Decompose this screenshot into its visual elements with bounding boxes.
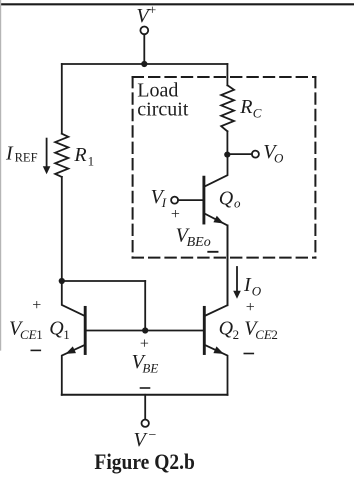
label Q1: [49, 318, 70, 343]
current arrow IO: [233, 267, 241, 299]
svg-text:REF: REF: [15, 150, 38, 164]
resistor R1: [55, 134, 68, 177]
svg-text:I: I: [243, 274, 252, 296]
polarity -: [208, 251, 217, 253]
label Load circuit: [137, 80, 189, 121]
terminal VO: [252, 151, 259, 158]
terminal VI: [171, 197, 178, 204]
junction: [141, 61, 147, 67]
svg-text:I: I: [161, 195, 167, 210]
label VI: [151, 186, 167, 210]
junction: [59, 278, 65, 284]
node V+: [136, 4, 156, 27]
svg-text:−: −: [149, 428, 157, 443]
label VBEo: [176, 225, 211, 250]
wire: [61, 177, 63, 281]
polarity -: [244, 353, 253, 355]
label Qo: [219, 188, 241, 211]
junction: [224, 152, 230, 158]
svg-text:BE: BE: [142, 361, 158, 376]
transistor Q2: [204, 225, 227, 394]
label VCE1: [9, 318, 43, 343]
svg-text:C: C: [253, 105, 262, 120]
wire: [61, 64, 63, 134]
wire: [62, 394, 228, 396]
junction: [142, 327, 148, 333]
resistor RC: [221, 64, 234, 155]
label RC: [239, 96, 261, 121]
svg-text:BEo: BEo: [187, 235, 211, 250]
label Q2: [219, 318, 240, 343]
wire: [143, 34, 145, 64]
svg-text:Q: Q: [49, 318, 64, 340]
svg-text:R: R: [73, 144, 86, 166]
load circuit box: [133, 77, 316, 258]
svg-text:I: I: [5, 142, 14, 164]
svg-text:+: +: [140, 335, 149, 352]
svg-text:2: 2: [271, 327, 278, 342]
current arrow IREF: [43, 139, 51, 175]
svg-text:+: +: [32, 297, 41, 314]
svg-text:CE: CE: [255, 327, 272, 342]
svg-text:O: O: [274, 150, 284, 165]
wire: [227, 153, 252, 155]
label VBE: [132, 351, 159, 376]
transistor Qo: [178, 155, 227, 306]
svg-text:+: +: [148, 4, 156, 19]
wire: [62, 280, 145, 282]
label R1: [73, 144, 94, 169]
wire: [62, 63, 228, 65]
polarity -: [141, 387, 150, 389]
svg-text:1: 1: [36, 327, 43, 342]
svg-text:+: +: [171, 206, 180, 223]
svg-text:1: 1: [63, 327, 70, 342]
svg-text:V: V: [134, 429, 149, 451]
label IREF: [5, 142, 38, 164]
svg-text:+: +: [246, 299, 255, 316]
wire: [85, 330, 204, 332]
svg-text:O: O: [252, 284, 262, 299]
label VCE2: [244, 318, 278, 343]
svg-text:1: 1: [88, 154, 95, 169]
terminal V-: [142, 420, 149, 427]
svg-text:Figure Q2.b: Figure Q2.b: [94, 449, 194, 474]
label IO: [243, 274, 262, 299]
node V-: [134, 428, 157, 451]
svg-text:Q: Q: [219, 318, 234, 340]
label VO: [263, 141, 284, 165]
wire: [144, 395, 146, 420]
svg-text:Q: Q: [219, 188, 234, 210]
svg-text:CE: CE: [20, 327, 37, 342]
svg-text:o: o: [234, 196, 241, 211]
terminal V+: [140, 27, 148, 35]
svg-text:R: R: [239, 96, 252, 118]
wire: [144, 281, 146, 331]
svg-text:2: 2: [233, 327, 240, 342]
transistor Q1: [62, 281, 85, 395]
polarity -: [31, 349, 40, 351]
svg-text:circuit: circuit: [137, 98, 189, 120]
